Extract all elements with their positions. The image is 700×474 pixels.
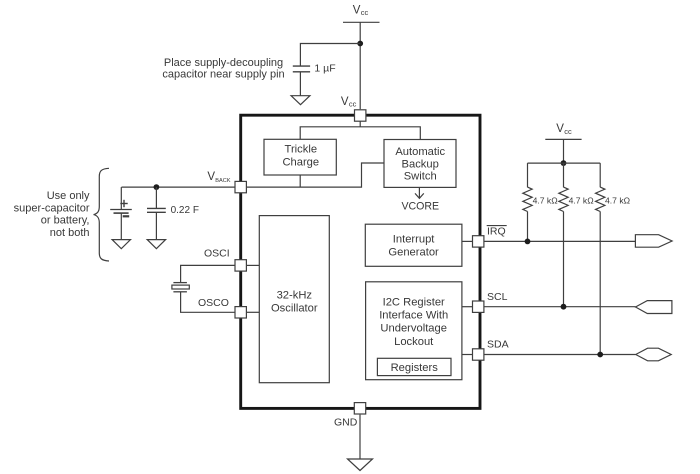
svg-text:super-capacitor: super-capacitor: [14, 202, 90, 214]
wire: crystal to OSCO pin: [181, 292, 235, 313]
wire: R1 bottom lead to IRQ: [527, 212, 529, 242]
svg-text:or battery,: or battery,: [41, 215, 90, 227]
svg-text:cc: cc: [349, 100, 357, 109]
svg-text:V: V: [341, 96, 349, 108]
pin VBACK: [235, 181, 246, 192]
wire: VBACK net (pin to trickle charge and backup switch): [247, 163, 384, 187]
pin VCC (top): [355, 110, 366, 121]
box: 32-kHz Oscillator: [259, 216, 329, 383]
chip outline U1: [241, 115, 480, 408]
wire: junction down to super-capacitor: [155, 187, 157, 208]
battery BT1: [110, 200, 132, 217]
wire: GND pin to ground: [359, 415, 361, 459]
wire: VCC rail down to VCC pin: [359, 22, 361, 109]
node: junction VBACK / 0.22F: [154, 184, 160, 190]
pin SCL: [473, 301, 484, 312]
pin OSCO: [235, 307, 246, 318]
svg-text:Charge: Charge: [282, 157, 319, 169]
wire: capacitor to ground: [299, 72, 301, 96]
svg-text:cc: cc: [361, 8, 369, 17]
box: Trickle Charge: [264, 139, 336, 175]
wire: SCL net: [485, 306, 636, 308]
svg-text:OSCI: OSCI: [204, 248, 230, 260]
pin OSCI: [235, 260, 246, 271]
svg-text:SDA: SDA: [487, 339, 509, 351]
svg-text:Switch: Switch: [404, 171, 437, 183]
VCC top supply rail bar: [343, 21, 380, 23]
wire: VBACK net horizontal: [122, 186, 235, 188]
wire: battery to ground: [120, 213, 122, 240]
wire: resistor R2 top lead: [563, 163, 565, 187]
ground (battery): [112, 240, 130, 249]
svg-text:Interface With: Interface With: [379, 310, 448, 322]
VCORE arrow: [415, 187, 424, 198]
connector: SCL input arrow: [636, 301, 672, 314]
wire: resistor R3 top lead: [599, 163, 601, 187]
wire: resistor top bus: [528, 162, 601, 164]
wire: super-capacitor to ground: [155, 212, 157, 239]
svg-text:4.7 kΩ: 4.7 kΩ: [533, 196, 559, 206]
wire: oscillator stubs to OSCI/OSCO pins: [247, 264, 259, 266]
wire: resistor R1 top lead: [527, 163, 529, 187]
svg-text:0.22 F: 0.22 F: [171, 205, 199, 216]
wire: VCC pin to internal branch: [359, 120, 361, 127]
crystal Y1 32-kHz: [172, 283, 189, 292]
wire: branch to decoupling capacitor: [300, 44, 360, 66]
svg-text:Backup: Backup: [402, 158, 439, 170]
resistor R1 4.7 k: [523, 187, 532, 211]
box: Automatic Backup Switch: [384, 140, 456, 188]
wire: R3 bottom lead to SDA: [599, 212, 601, 355]
svg-text:VCORE: VCORE: [401, 201, 439, 213]
svg-text:GND: GND: [334, 416, 358, 428]
capacitor C2 0.22 F: [147, 208, 166, 212]
annotation: use only super-capacitor or battery note: [14, 190, 90, 239]
svg-text:cc: cc: [564, 127, 572, 136]
connector: SDA bidirectional: [636, 348, 672, 361]
wire: R2 bottom lead to SCL: [563, 212, 565, 307]
wire: IRQ net: [485, 240, 636, 242]
wire: I2C box to SCL pin: [462, 306, 472, 308]
svg-text:Generator: Generator: [388, 247, 439, 259]
svg-text:Trickle: Trickle: [285, 144, 318, 156]
svg-text:OSCO: OSCO: [198, 297, 229, 309]
overline for IRQ label: [487, 225, 507, 227]
svg-text:4.7 kΩ: 4.7 kΩ: [605, 196, 631, 206]
annotation: place supply-decoupling note: [162, 57, 284, 81]
box: Registers: [377, 358, 451, 375]
node: junction IRQ / R1: [525, 239, 531, 245]
svg-text:BACK: BACK: [215, 178, 231, 184]
VCC pull-up supply rail bar: [545, 138, 581, 140]
wire: down to battery: [120, 187, 122, 209]
svg-text:32-kHz: 32-kHz: [277, 290, 313, 302]
node: junction resistor bus: [561, 160, 567, 166]
svg-text:capacitor near supply pin: capacitor near supply pin: [162, 68, 284, 80]
svg-text:Lockout: Lockout: [394, 336, 434, 348]
wire: internal VCC branch: [300, 127, 420, 140]
svg-text:Place supply-decoupling: Place supply-decoupling: [164, 57, 283, 69]
svg-text:Undervoltage: Undervoltage: [380, 323, 447, 335]
wire: SDA net: [485, 354, 636, 356]
resistor R3 4.7 k: [596, 187, 605, 211]
svg-text:V: V: [556, 123, 564, 135]
wire: I2C box to SDA pin: [462, 354, 472, 356]
pin SDA: [473, 349, 484, 360]
wire: rail down to resistor bus: [563, 139, 565, 163]
svg-text:V: V: [207, 171, 215, 183]
svg-text:Oscillator: Oscillator: [271, 303, 318, 315]
box: I2C Register Interface With Undervoltage Lockout: [366, 282, 462, 380]
svg-text:Use only: Use only: [47, 190, 90, 202]
svg-text:4.7 kΩ: 4.7 kΩ: [569, 196, 595, 206]
svg-text:V: V: [353, 4, 361, 16]
connector: IRQ output arrow: [635, 235, 672, 248]
pin IRQ: [473, 236, 484, 247]
ground (super-capacitor): [147, 240, 165, 249]
svg-text:I2C Register: I2C Register: [383, 296, 445, 308]
svg-text:Automatic: Automatic: [395, 146, 445, 158]
ground (decoupling capacitor): [291, 96, 310, 105]
net VCC pull-up supply label: [556, 123, 572, 136]
wire: OSCI pin to crystal: [181, 265, 235, 282]
brace grouping battery and super-capacitor: [94, 168, 109, 261]
svg-text:SCL: SCL: [487, 291, 508, 303]
svg-text:IRQ: IRQ: [487, 225, 506, 237]
node: junction SDA / R3: [597, 352, 603, 358]
resistor R2 4.7 k: [559, 187, 568, 211]
svg-text:Interrupt: Interrupt: [393, 233, 436, 245]
wire: stub into trickle charge bottom: [299, 175, 301, 187]
node: junction SCL / R2: [561, 304, 567, 310]
net VCC top supply label: [353, 4, 369, 17]
wire: interrupt generator to IRQ pin: [462, 240, 472, 242]
ground (GND pin): [348, 459, 373, 471]
box: Interrupt Generator: [365, 224, 462, 266]
pin GND (bottom): [354, 403, 365, 414]
svg-text:not both: not both: [50, 227, 90, 239]
capacitor C1 1 uF: [293, 66, 310, 72]
svg-text:1 µF: 1 µF: [314, 63, 335, 75]
svg-text:Registers: Registers: [391, 362, 439, 374]
node: junction VCC / 1uF branch: [357, 41, 363, 47]
